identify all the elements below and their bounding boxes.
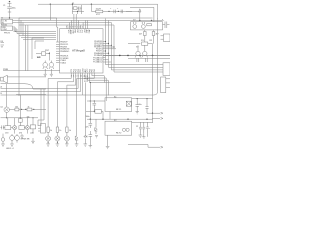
- capacitor C1: [7, 7, 11, 18]
- wire rail y=117.8: [1, 117, 39, 119]
- wire bottom-right rail: [128, 145, 160, 148]
- diode D10: [95, 119, 98, 134]
- connector P5 right edge: [161, 77, 170, 93]
- node junction x=72.4: [72, 3, 73, 4]
- capacitor C3: [108, 8, 115, 13]
- varistor RV1: [95, 110, 103, 120]
- wire box B right y=122.3: [132, 121, 153, 123]
- resistor X3 vertical: [18, 95, 33, 126]
- resistor R3: [56, 82, 61, 136]
- svg-text:10k: 10k: [15, 106, 18, 108]
- svg-text:PB2: PB2: [94, 69, 96, 72]
- transistor Q4: [142, 45, 148, 57]
- inductor L1 top-right: [91, 9, 132, 13]
- ground: [136, 112, 139, 114]
- block A rail: [87, 100, 105, 102]
- node junctions: [90, 119, 148, 120]
- svg-text:ATMega8: ATMega8: [72, 49, 85, 53]
- node junctions rail: [6, 117, 34, 118]
- svg-text:4k7: 4k7: [156, 34, 159, 36]
- wire vertical x=157.6: [157, 18, 159, 91]
- ground: [50, 69, 53, 77]
- svg-text:XT1: XT1: [78, 30, 80, 33]
- wire right edge stub arrow: [161, 146, 164, 148]
- capacitor C12: [136, 122, 142, 133]
- transistor Q6: [43, 61, 48, 70]
- box corner around sub-circuit: [32, 38, 44, 59]
- connector P3 right edge: [161, 34, 171, 42]
- ground: [44, 69, 47, 77]
- svg-text:100n: 100n: [86, 116, 90, 118]
- capacitor C17: [145, 99, 148, 114]
- resistor R22: [5, 118, 13, 130]
- connector P6: [38, 124, 45, 134]
- transistor Q3: [135, 45, 141, 57]
- grounds: [139, 133, 148, 138]
- wire vertical x=152.5: [152, 44, 154, 123]
- capacitor C8: [93, 101, 97, 111]
- svg-text:4k7: 4k7: [139, 34, 142, 36]
- capacitor C6: [146, 58, 148, 62]
- capacitor C10: [89, 131, 93, 139]
- capacitor C4: [117, 8, 123, 13]
- LED D7: [55, 136, 60, 144]
- wire rail y=58.4 decoupling: [128, 57, 170, 59]
- transistor Q5: [4, 84, 9, 118]
- grounds LED array: [46, 144, 87, 146]
- IC left pins: [56, 42, 60, 63]
- capacitor C5: [137, 58, 139, 62]
- wire staircase below IC going left: [1, 79, 83, 96]
- svg-text:220: 220: [30, 132, 33, 134]
- node junction bus: [152, 113, 153, 114]
- svg-text:PB6: PB6: [74, 30, 76, 33]
- wire y=111.4: [86, 110, 94, 112]
- wire VCC rail y=18: [1, 18, 58, 42]
- node junctions: [21, 109, 26, 110]
- node junctions on bus: [105, 41, 115, 54]
- text labels scattered: [1, 14, 153, 83]
- svg-text:10u: 10u: [139, 104, 142, 106]
- transistor Q1: [133, 22, 137, 28]
- LED D8: [64, 136, 69, 144]
- wire verticals bottom-left feed: [38, 89, 44, 126]
- connector J2: [1, 26, 17, 34]
- resistor R23: [19, 126, 26, 130]
- svg-text:LED1..4: LED1..4: [6, 148, 14, 150]
- capacitor C16 polarized: [136, 99, 142, 112]
- capacitor C13: [142, 122, 145, 133]
- capacitor C7 polarized: [163, 20, 170, 28]
- wire staircase below IC going right: [85, 76, 131, 101]
- wire vertical x=50.3: [49, 4, 51, 20]
- node junctions rail: [119, 55, 153, 57]
- LED D3: [13, 118, 17, 134]
- diode D12: [84, 83, 87, 144]
- capacitor C14 polarized: [146, 122, 151, 133]
- LED D6: [46, 136, 51, 144]
- svg-text:470: 470: [5, 132, 8, 134]
- connector P4 right edge bus: [163, 63, 170, 76]
- node junctions: [137, 98, 148, 99]
- resistor R21: [30, 125, 35, 134]
- wire curved bottom-right feed: [83, 91, 158, 95]
- resistor R12: [152, 30, 158, 44]
- svg-text:1k: 1k: [50, 130, 52, 132]
- resistor R14: [27, 108, 46, 111]
- node junction x=50.3: [50, 3, 51, 4]
- IC bottom pins: [71, 73, 94, 95]
- transistor Q7: [49, 61, 54, 70]
- relay module box A: [105, 96, 132, 111]
- svg-text:RS232: RS232: [1, 24, 8, 26]
- wire rail y=43.6: [128, 43, 140, 45]
- svg-text:470: 470: [19, 132, 22, 134]
- IC right pins: [103, 42, 128, 63]
- IC U1 ATMega8: [60, 29, 104, 73]
- wire bus corners from J1/J2: [15, 18, 163, 96]
- wire top-right corners: [126, 4, 158, 22]
- wire below box A: [109, 112, 111, 120]
- relay module box B: [105, 120, 132, 135]
- svg-text:100u: 100u: [12, 8, 16, 10]
- svg-text:XTAL2: XTAL2: [60, 61, 66, 64]
- resistor R13: [9, 106, 29, 111]
- ground symbols bottom-left: [1, 134, 35, 146]
- wire rail y=94.5: [16, 94, 46, 96]
- svg-text:C1: C1: [3, 5, 5, 7]
- crystal X2: [142, 42, 153, 45]
- wire right vertical bus: [106, 19, 164, 73]
- svg-text:RLY1: RLY1: [116, 109, 122, 111]
- svg-text:47u: 47u: [86, 126, 89, 128]
- resistor R10: [147, 24, 152, 26]
- wire curved: [1, 84, 47, 89]
- wire bold rail y=55.4: [103, 54, 170, 56]
- wire vertical x=72.4: [71, 4, 73, 11]
- capacitor C18 left edge: [1, 125, 5, 129]
- svg-text:X1: X1: [72, 3, 74, 5]
- crystal X1 top-center: [72, 5, 81, 13]
- wire below box B: [107, 135, 109, 146]
- svg-text:Q1: Q1: [0, 106, 3, 108]
- svg-text:PROG: PROG: [4, 32, 10, 34]
- power flag VCC top-left: [8, 1, 12, 7]
- svg-text:PWR: PWR: [3, 69, 9, 71]
- ground: [95, 136, 98, 138]
- node junction: [77, 11, 78, 12]
- LED D4: [25, 118, 29, 134]
- speaker LS1: [1, 75, 47, 83]
- svg-text:7 20 8 9 1 0 1: 7 20 8 9 1 0 1: [66, 27, 84, 29]
- wire: [90, 4, 92, 11]
- wire rail y=70.7: [3, 70, 60, 72]
- node junctions: [90, 100, 95, 101]
- connector J1: [1, 19, 17, 24]
- svg-text:VCC: VCC: [96, 14, 101, 16]
- LED D5: [1, 134, 5, 142]
- node junction: [151, 20, 152, 21]
- ground: [89, 139, 93, 148]
- power flag arrow right: [139, 9, 141, 21]
- pin labels bottom (rotated): [71, 68, 96, 73]
- svg-text:PB4/MISO: PB4/MISO: [60, 51, 69, 53]
- node junction: [91, 3, 92, 4]
- node junction power/rail: [9, 17, 10, 18]
- value labels row: [5, 132, 33, 134]
- capacitor C2: [72, 11, 84, 14]
- svg-text:1k: 1k: [69, 130, 71, 132]
- net stub TXD: [1, 45, 5, 49]
- ground: [106, 146, 110, 148]
- svg-text:SW: SW: [37, 57, 40, 59]
- svg-text:10uH: 10uH: [96, 9, 102, 11]
- svg-text:CON2: CON2: [2, 29, 7, 31]
- block B: capacitor C9: [89, 119, 93, 128]
- resistor R11: [139, 30, 146, 42]
- wire left verticals down: [15, 23, 56, 71]
- wire y=113.2 to bus: [147, 112, 153, 114]
- svg-text:PB7: PB7: [76, 30, 78, 33]
- transistor Q2: [142, 22, 146, 28]
- IC top pins: [67, 14, 88, 29]
- wire to LED column 4: [77, 78, 95, 80]
- wire top rail y=4.2: [38, 3, 158, 5]
- svg-text:1k: 1k: [59, 130, 61, 132]
- svg-text:22: 22: [136, 126, 138, 128]
- svg-text:XT2: XT2: [81, 30, 83, 33]
- buzzer B1: [10, 134, 20, 140]
- diode D9: [75, 79, 78, 144]
- svg-text:RLY2: RLY2: [116, 132, 122, 134]
- svg-text:PC2/ADC2: PC2/ADC2: [93, 61, 102, 64]
- resistor R4: [66, 85, 71, 136]
- svg-text:GND: GND: [71, 30, 73, 35]
- wire rail y=119.2: [87, 118, 153, 120]
- right block connector K1: [131, 22, 163, 30]
- wire right stubs with arrows: [153, 112, 164, 119]
- wire vertical x=90.3: [89, 83, 91, 120]
- node junctions LED array: [48, 142, 68, 143]
- pin labels left: [60, 42, 69, 65]
- node junction: [94, 111, 95, 112]
- pin labels top (rotated): [67, 30, 91, 36]
- pin labels right: [93, 41, 103, 64]
- net stub RXD: [1, 41, 5, 43]
- LED array column 1: resistor R2: [47, 79, 52, 136]
- sub-circuit left of IC: resistor R1: [36, 52, 50, 61]
- wire box A right y=98.6: [132, 98, 153, 100]
